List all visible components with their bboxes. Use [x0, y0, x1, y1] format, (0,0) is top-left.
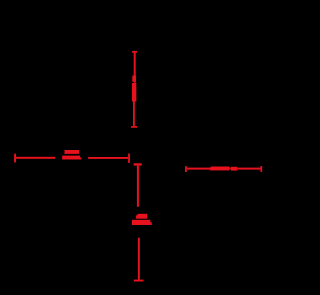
capacitor C3 plate 2 (short plate)	[231, 167, 237, 171]
node/terminal T7 (bottom branch top terminal bar)	[134, 163, 142, 165]
node/terminal T6 (right branch outer terminal bar)	[260, 166, 262, 172]
wire (C1 inter-plate link)	[134, 82, 136, 84]
capacitor C2 plate 2 (long plate on wire)	[62, 156, 80, 160]
capacitor C4 plate 2 (long plate)	[132, 220, 150, 225]
node/terminal T8 (bottom branch bottom terminal bar)	[134, 280, 144, 282]
capacitor C1 plate 2 (long plate)	[132, 83, 136, 102]
wire (bottom branch upper lead)	[137, 166, 139, 207]
wire (bottom branch lower lead)	[138, 238, 140, 280]
wire (top branch lower lead)	[133, 101, 135, 126]
wire (top branch upper lead)	[134, 52, 136, 82]
capacitor C2 plate 2 curved-end step	[80, 157, 81, 159]
capacitor C2 plate 1 (short plate above wire)	[65, 150, 80, 154]
capacitor C4 plate 2 curved-end step	[150, 222, 151, 225]
node/terminal T2 (top branch inner terminal bar)	[131, 126, 137, 128]
capacitor C4 plate 1 (short plate)	[138, 214, 148, 219]
node/terminal T1 (top branch outer terminal bar)	[132, 51, 137, 53]
capacitor C4 plate 1 left lower step	[135, 216, 138, 219]
capacitor C1 plate 1 (short plate)	[132, 76, 136, 82]
wire (C3 inter-plate link)	[229, 168, 231, 170]
wire (right branch inner lead)	[187, 168, 210, 170]
node/terminal T5 (right branch inner terminal bar)	[185, 166, 187, 172]
capacitor C3 plate 1 (long plate)	[211, 167, 230, 171]
wire (right branch outer lead)	[237, 168, 260, 170]
node/terminal T3 (left branch outer terminal bar)	[14, 154, 16, 163]
node/terminal T4 (left branch inner terminal bar)	[128, 154, 130, 163]
capacitor C4 plate 1 left steps	[137, 215, 138, 219]
wire (left branch inner lead)	[88, 157, 128, 159]
capacitor C3 plate 1 curved-end step	[210, 167, 211, 170]
wire (left branch outer lead)	[16, 157, 55, 159]
